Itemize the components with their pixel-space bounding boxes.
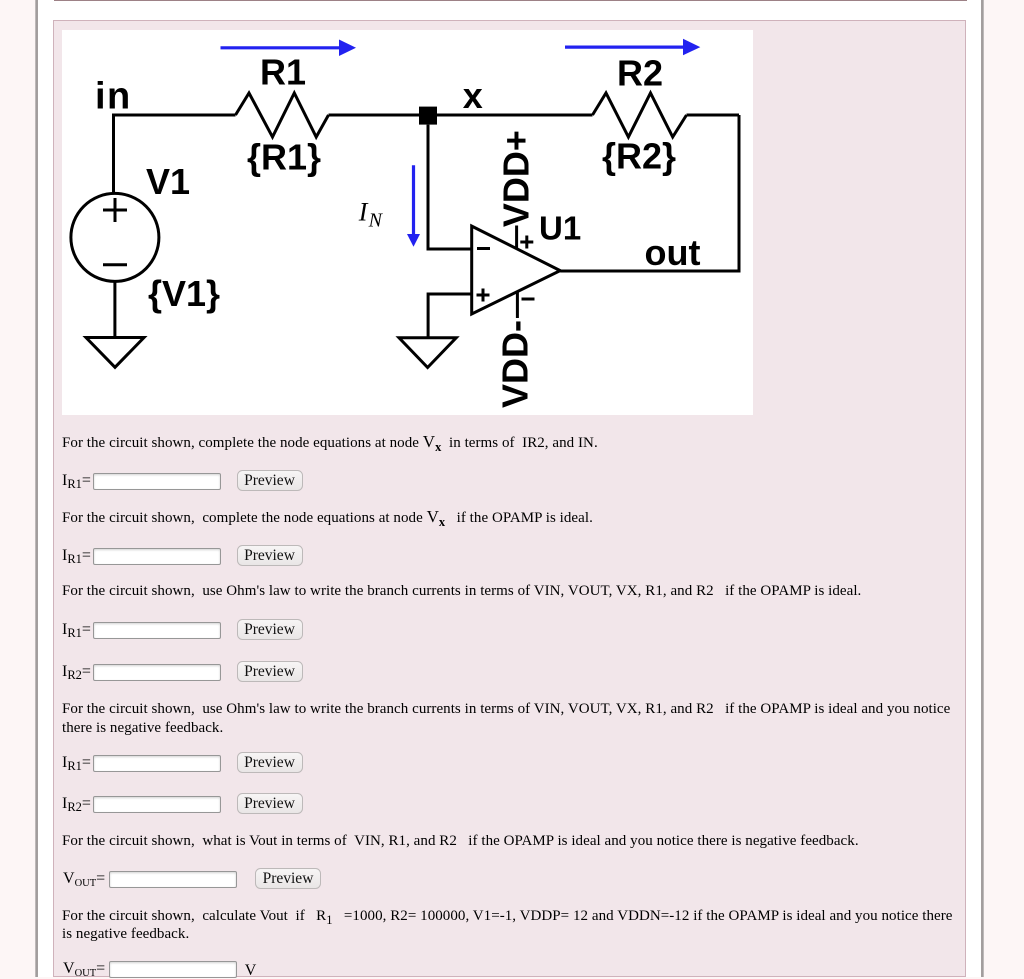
svg-text:V1: V1 <box>146 161 190 202</box>
svg-text:in: in <box>95 76 132 118</box>
pin VDD+ plus marker <box>520 236 533 249</box>
wire: node in to R1 <box>114 114 236 117</box>
ground (below op-amp non-inverting input) <box>399 338 456 368</box>
wire: node x to R2 <box>428 114 593 117</box>
wire: right vertical from R2 down to out rail <box>738 115 741 273</box>
ground (below V1) <box>86 338 144 368</box>
Q1 <box>62 433 955 453</box>
resistor R2 <box>593 93 687 137</box>
wire: R1 to node x <box>329 114 429 117</box>
U1 inverting input minus marker <box>477 247 490 250</box>
current arrow over R1 <box>221 40 357 57</box>
node x junction <box>419 107 437 125</box>
pin VDD- minus marker <box>522 298 535 301</box>
svg-text:R2: R2 <box>617 52 663 93</box>
pin VDD+ stub <box>515 226 518 249</box>
left gray frame line <box>35 0 38 977</box>
svg-text:R1: R1 <box>260 52 306 93</box>
svg-text:N: N <box>368 210 384 232</box>
wire: R2 to top-right corner <box>687 114 740 117</box>
svg-text:I: I <box>358 197 369 226</box>
V1 plus polarity marker <box>103 198 127 222</box>
svg-text:{V1}: {V1} <box>148 273 220 314</box>
wire: non-inverting input of U1 to ground <box>428 294 472 338</box>
voltage source V1 <box>71 193 159 281</box>
right gray frame line <box>981 0 984 977</box>
Q3 <box>62 582 955 601</box>
wire: V1 bottom to ground <box>113 281 116 337</box>
top maroon rule <box>54 0 967 1</box>
V1 minus polarity marker <box>103 263 127 266</box>
wire: node in down to V1 top <box>112 114 115 194</box>
wire: U1 output to node out <box>560 270 739 273</box>
current arrow IN pointing down at node x <box>407 165 420 247</box>
pin VDD- stub <box>516 292 519 318</box>
svg-text:out: out <box>645 232 701 273</box>
svg-text:VDD-: VDD- <box>494 320 535 408</box>
svg-text:VDD+: VDD+ <box>496 130 537 227</box>
svg-text:{R2}: {R2} <box>602 136 676 177</box>
Q4 <box>62 700 955 737</box>
current arrow over R2 <box>565 39 700 56</box>
U1 non-inverting input plus marker <box>477 289 490 302</box>
wire: node x down and to inverting input of U1 <box>428 125 472 249</box>
Q6 <box>62 907 955 944</box>
svg-text:{R1}: {R1} <box>247 137 321 178</box>
op-amp U1 <box>472 226 561 314</box>
circuit schematic image <box>62 30 753 415</box>
Q2 <box>62 508 955 528</box>
svg-text:U1: U1 <box>539 210 581 247</box>
resistor R1 <box>236 93 329 137</box>
Q5 <box>62 832 955 851</box>
current IN label <box>358 197 384 231</box>
svg-text:x: x <box>463 75 483 116</box>
